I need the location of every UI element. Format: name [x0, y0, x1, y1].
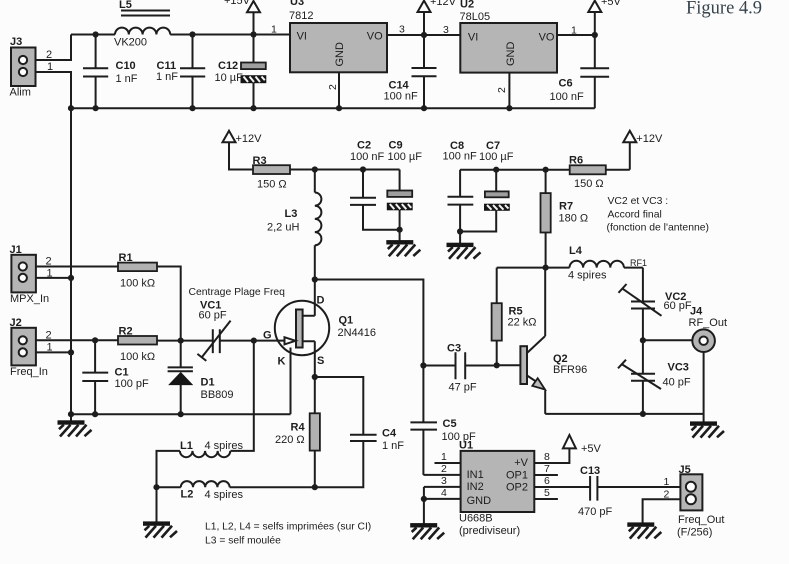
- wire R3 to C9: [290, 169, 400, 171]
- trimmer capacitor VC3: [618, 340, 691, 414]
- svg-text:VO: VO: [367, 31, 383, 43]
- svg-text:C2: C2: [357, 140, 371, 152]
- svg-text:3: 3: [399, 24, 405, 36]
- capacitor C9: [387, 140, 422, 241]
- svg-text:BB809: BB809: [201, 389, 234, 401]
- svg-text:OP2: OP2: [506, 481, 528, 493]
- wire U2 GND pin 2: [508, 73, 510, 109]
- svg-text:6: 6: [544, 475, 550, 487]
- svg-text:L1, L2, L4 = selfs imprimées (: L1, L2, L4 = selfs imprimées (sur CI): [205, 522, 371, 533]
- svg-text:C4: C4: [382, 428, 397, 440]
- node C11 top: [189, 31, 195, 37]
- node C9 bottom: [397, 227, 403, 233]
- node L4 R7 collector: [543, 265, 549, 271]
- svg-text:7: 7: [544, 463, 550, 475]
- node C3 C5: [420, 362, 426, 368]
- svg-text:J1: J1: [10, 244, 22, 256]
- svg-text:Freq_In: Freq_In: [10, 366, 48, 378]
- svg-text:100 nF: 100 nF: [443, 151, 478, 163]
- wire left ground bus: [70, 108, 72, 414]
- note VC2 VC3 accord final: [607, 196, 710, 234]
- svg-text:IN2: IN2: [467, 481, 484, 493]
- svg-text:C9: C9: [389, 140, 403, 152]
- svg-text:RF_Out: RF_Out: [689, 317, 728, 329]
- svg-text:220 Ω: 220 Ω: [275, 434, 305, 446]
- svg-text:100 nF: 100 nF: [350, 151, 385, 163]
- node R1 R2 D1: [178, 338, 184, 344]
- capacitor C13: [578, 465, 680, 518]
- power +12V oscillator: [223, 131, 263, 170]
- svg-text:J2: J2: [10, 317, 22, 329]
- node J1 pin1: [68, 275, 74, 281]
- svg-text:GND: GND: [467, 495, 492, 507]
- svg-text:IN1: IN1: [467, 469, 484, 481]
- wire R2 to VC1: [157, 340, 213, 342]
- svg-text:1: 1: [664, 476, 670, 488]
- svg-text:VI: VI: [468, 32, 478, 44]
- resistor R5: [492, 268, 537, 366]
- connector J5 Freq_Out: [677, 464, 724, 539]
- svg-text:+12V: +12V: [236, 133, 263, 145]
- wire U2 VO to +5V: [557, 34, 595, 36]
- wire U3 GND pin 2: [338, 72, 340, 108]
- power +12V right: [623, 131, 663, 170]
- svg-text:1: 1: [271, 24, 277, 36]
- svg-text:4 spires: 4 spires: [205, 440, 244, 452]
- svg-text:Alim: Alim: [10, 87, 31, 99]
- node C14 bottom: [421, 105, 427, 111]
- wire U1 pin8 to +5V: [534, 448, 569, 463]
- svg-text:100 µF: 100 µF: [388, 151, 423, 163]
- connector J1: [10, 244, 53, 305]
- inductor L5: [114, 0, 170, 49]
- svg-text:+12V: +12V: [636, 133, 663, 145]
- svg-text:180 Ω: 180 Ω: [559, 213, 589, 225]
- svg-text:8: 8: [544, 451, 550, 463]
- resistor R4: [275, 377, 320, 487]
- power +15V: [224, 0, 260, 35]
- svg-text:R6: R6: [569, 155, 583, 167]
- svg-text:78L05: 78L05: [460, 11, 491, 23]
- svg-text:R4: R4: [291, 422, 306, 434]
- wire L2 to R4 node: [230, 486, 315, 488]
- capacitor C1: [82, 340, 149, 414]
- wire U1 pin6 to C13: [534, 486, 590, 488]
- node C11 bottom: [189, 105, 195, 111]
- node R4 bottom: [312, 484, 318, 490]
- svg-text:C5: C5: [443, 418, 457, 430]
- node VC3 bottom: [640, 411, 646, 417]
- wire U3 VO to U2 VI: [387, 34, 460, 36]
- svg-text:GND: GND: [505, 42, 517, 67]
- node C10 top: [93, 31, 99, 37]
- svg-text:1 nF: 1 nF: [116, 73, 138, 85]
- svg-text:C3: C3: [447, 343, 461, 355]
- ground under C8: [447, 243, 481, 259]
- ground left bus: [58, 414, 92, 436]
- node +12V top: [421, 32, 427, 38]
- svg-text:+5V: +5V: [601, 0, 622, 8]
- capacitor C10: [83, 35, 138, 109]
- svg-text:4 spires: 4 spires: [568, 270, 607, 282]
- resistor R3: [253, 155, 291, 191]
- node U2 GND: [506, 105, 512, 111]
- capacitor C6: [550, 35, 610, 108]
- ground under U1: [411, 499, 445, 539]
- wire J2 pin2 to R2: [36, 339, 118, 341]
- svg-text:Freq_Out: Freq_Out: [678, 514, 724, 526]
- wire +15V rail to U3: [170, 34, 290, 36]
- inductor L4: [546, 245, 643, 282]
- node L1 L2 ground: [153, 484, 159, 490]
- wire +15V rail left: [71, 34, 115, 36]
- svg-text:R7: R7: [559, 201, 573, 213]
- svg-text:470 pF: 470 pF: [578, 506, 613, 518]
- node C10 bottom: [93, 105, 99, 111]
- svg-text:+12V: +12V: [430, 0, 457, 8]
- svg-text:100 pF: 100 pF: [115, 378, 150, 390]
- wire U1 pin1 stub: [435, 462, 461, 464]
- svg-text:J4: J4: [690, 306, 703, 318]
- wire Q1 case K to ground rail: [290, 348, 292, 415]
- svg-text:VC2 et VC3 :: VC2 et VC3 :: [608, 196, 669, 207]
- svg-text:Figure 4.9: Figure 4.9: [686, 0, 762, 19]
- svg-text:4: 4: [441, 487, 447, 499]
- ground under J4: [691, 414, 725, 438]
- transistor Q2 BFR96: [497, 268, 588, 414]
- svg-text:7812: 7812: [289, 10, 313, 22]
- note selfs imprimees: [205, 522, 371, 547]
- svg-text:J5: J5: [679, 464, 691, 476]
- svg-text:R1: R1: [119, 252, 133, 264]
- svg-text:VI: VI: [297, 31, 307, 43]
- wire C8 C7 R7 top: [460, 169, 545, 171]
- connector J4 RF_Out: [689, 306, 728, 353]
- node C2 top: [360, 166, 366, 172]
- svg-text:100 nF: 100 nF: [550, 91, 585, 103]
- varactor D1 BB809: [168, 341, 234, 415]
- svg-text:60 pF: 60 pF: [199, 310, 227, 322]
- node L3 top: [312, 166, 318, 172]
- wire to J4: [643, 339, 692, 341]
- svg-text:U1: U1: [459, 440, 473, 452]
- svg-text:RF1: RF1: [630, 258, 647, 268]
- svg-text:GND: GND: [334, 42, 346, 67]
- svg-text:R2: R2: [119, 326, 133, 338]
- svg-text:Accord final: Accord final: [608, 210, 662, 221]
- capacitor C14: [384, 35, 437, 108]
- wire U1 pin5 stub: [534, 498, 558, 500]
- wire J1 pin2 to R1: [36, 266, 118, 268]
- svg-text:Q1: Q1: [339, 315, 354, 327]
- svg-text:1 nF: 1 nF: [156, 71, 178, 83]
- node source: [312, 374, 318, 380]
- node R7 top: [543, 167, 549, 173]
- svg-text:+V: +V: [514, 457, 528, 469]
- node +5V top: [592, 32, 598, 38]
- svg-text:L5: L5: [119, 0, 132, 11]
- connector J2: [10, 317, 53, 378]
- svg-text:+15V: +15V: [224, 0, 251, 7]
- svg-text:2: 2: [496, 87, 508, 93]
- svg-text:U3: U3: [290, 0, 304, 8]
- wire R1 to gate node: [157, 267, 181, 341]
- svg-text:L4: L4: [569, 245, 583, 257]
- svg-text:60 pF: 60 pF: [664, 300, 692, 312]
- svg-text:D1: D1: [201, 377, 215, 389]
- svg-text:C6: C6: [559, 78, 573, 90]
- wire J3 pin1 to ground rail: [36, 72, 72, 108]
- svg-text:(prediviseur): (prediviseur): [459, 525, 520, 537]
- svg-text:D: D: [317, 295, 325, 307]
- svg-text:U668B: U668B: [459, 513, 493, 525]
- svg-text:1: 1: [441, 451, 447, 463]
- capacitor C3: [423, 343, 496, 394]
- node R5 bottom: [494, 362, 500, 368]
- svg-text:C12: C12: [218, 60, 238, 72]
- svg-text:100 kΩ: 100 kΩ: [120, 351, 155, 363]
- svg-text:L3 = self moulée: L3 = self moulée: [205, 536, 281, 547]
- svg-text:L3: L3: [285, 208, 298, 220]
- trimmer capacitor VC2: [619, 268, 692, 341]
- svg-text:40 pF: 40 pF: [663, 377, 691, 389]
- svg-text:100 µF: 100 µF: [479, 151, 514, 163]
- capacitor C2: [350, 140, 400, 230]
- wire R5 to collector node: [497, 267, 546, 269]
- svg-text:1: 1: [571, 25, 577, 37]
- regulator U2: [460, 0, 558, 73]
- wire J3 pin2 to +15V rail: [36, 35, 72, 61]
- node ground rail left end: [68, 411, 74, 417]
- svg-text:100 kΩ: 100 kΩ: [120, 278, 155, 290]
- wire gate node to L1: [231, 341, 254, 451]
- node gate L1: [251, 338, 257, 344]
- node C12 bottom: [250, 105, 256, 111]
- wire U1 pin3: [424, 487, 461, 499]
- node C8 bottom: [457, 228, 463, 234]
- svg-text:VC3: VC3: [668, 362, 689, 374]
- svg-text:2: 2: [441, 463, 447, 475]
- svg-text:MPX_In: MPX_In: [10, 293, 49, 305]
- svg-text:4 spires: 4 spires: [205, 489, 244, 501]
- wire Q1 source: [314, 341, 316, 377]
- svg-text:K: K: [278, 356, 286, 368]
- svg-text:Centrage Plage Freq: Centrage Plage Freq: [189, 287, 286, 298]
- wire VC1 to gate: [220, 340, 285, 342]
- capacitor C12: [215, 35, 266, 109]
- ground under J5: [628, 523, 662, 539]
- transistor Q1 2N4416: [263, 295, 376, 368]
- wire J2 pin1 to ground bus: [36, 351, 71, 353]
- wire U1 pin7 stub: [534, 474, 558, 476]
- wire emitter rail: [545, 413, 703, 415]
- svg-text:2N4416: 2N4416: [338, 327, 377, 339]
- svg-text:L1: L1: [180, 440, 193, 452]
- node U1 GND: [421, 496, 427, 502]
- wire J5 pin2 to ground: [643, 499, 681, 523]
- capacitor C11: [156, 35, 205, 109]
- wire ground rail bottom left: [71, 413, 291, 415]
- wire drain node to C3 node: [315, 280, 424, 366]
- svg-text:3: 3: [443, 24, 449, 36]
- regulator U3: [289, 0, 387, 72]
- svg-text:L2: L2: [181, 489, 194, 501]
- svg-text:2,2 uH: 2,2 uH: [267, 222, 299, 234]
- connector J3: [10, 36, 54, 99]
- svg-text:150 Ω: 150 Ω: [574, 178, 604, 190]
- power +5V top: [588, 0, 621, 35]
- trimmer capacitor VC1: [197, 300, 230, 361]
- node C1 top: [92, 337, 98, 343]
- node U3 GND: [336, 105, 342, 111]
- ground under C9: [387, 241, 421, 257]
- svg-text:OP1: OP1: [506, 469, 528, 481]
- node VC2 J4: [640, 337, 646, 343]
- svg-text:BFR96: BFR96: [553, 364, 587, 376]
- resistor R1: [118, 252, 157, 290]
- ground under L1 L2: [144, 487, 178, 537]
- node drain L3: [312, 276, 318, 282]
- svg-text:150 Ω: 150 Ω: [257, 179, 287, 191]
- svg-text:100 nF: 100 nF: [384, 91, 419, 103]
- capacitor C4: [315, 377, 404, 487]
- wire Q1 drain: [314, 280, 316, 316]
- resistor R6: [546, 155, 630, 191]
- inductor L1: [180, 440, 244, 457]
- power +5V U1: [563, 435, 602, 455]
- node C1 bottom: [92, 411, 98, 417]
- node ground rail J3: [68, 105, 74, 111]
- svg-text:S: S: [317, 355, 324, 367]
- inductor L2: [157, 481, 244, 501]
- node J2 pin1: [68, 349, 74, 355]
- svg-text:5: 5: [544, 487, 550, 499]
- svg-text:2: 2: [327, 84, 339, 90]
- svg-text:C13: C13: [580, 465, 600, 477]
- wire ground rail top: [71, 107, 595, 109]
- resistor R2: [118, 326, 157, 364]
- svg-text:(fonction de l'antenne): (fonction de l'antenne): [607, 223, 710, 234]
- svg-text:G: G: [263, 330, 272, 342]
- svg-text:VO: VO: [539, 32, 555, 44]
- svg-text:10 µF: 10 µF: [215, 72, 244, 84]
- svg-text:(F/256): (F/256): [677, 527, 712, 539]
- inductor L3: [267, 170, 321, 280]
- node D1 bottom: [178, 411, 184, 417]
- wire J4 shield down: [703, 352, 705, 414]
- node C12 top: [250, 31, 256, 37]
- resistor R7: [541, 170, 589, 268]
- svg-text:C1: C1: [115, 367, 129, 379]
- wire L1 left to L2 node: [157, 451, 180, 487]
- capacitor C5: [410, 366, 476, 475]
- svg-text:+5V: +5V: [581, 443, 602, 455]
- capacitor C8: [443, 140, 478, 243]
- svg-text:R3: R3: [253, 155, 267, 167]
- power +12V top: [418, 0, 457, 35]
- wire J1 pin1 to ground bus: [36, 277, 71, 279]
- svg-text:1 nF: 1 nF: [382, 440, 404, 452]
- svg-text:J3: J3: [10, 36, 22, 48]
- capacitor C7: [460, 140, 514, 232]
- svg-text:C10: C10: [116, 60, 136, 72]
- svg-text:U2: U2: [460, 0, 474, 11]
- svg-text:VK200: VK200: [114, 37, 147, 49]
- svg-text:47 pF: 47 pF: [449, 382, 477, 394]
- node C7 top: [493, 167, 499, 173]
- svg-text:3: 3: [441, 475, 447, 487]
- svg-text:22 kΩ: 22 kΩ: [508, 317, 537, 329]
- wire U1 pin4: [424, 498, 461, 500]
- IC U1 U668B: [459, 440, 534, 538]
- wire U1 pin2 to C5: [423, 474, 460, 476]
